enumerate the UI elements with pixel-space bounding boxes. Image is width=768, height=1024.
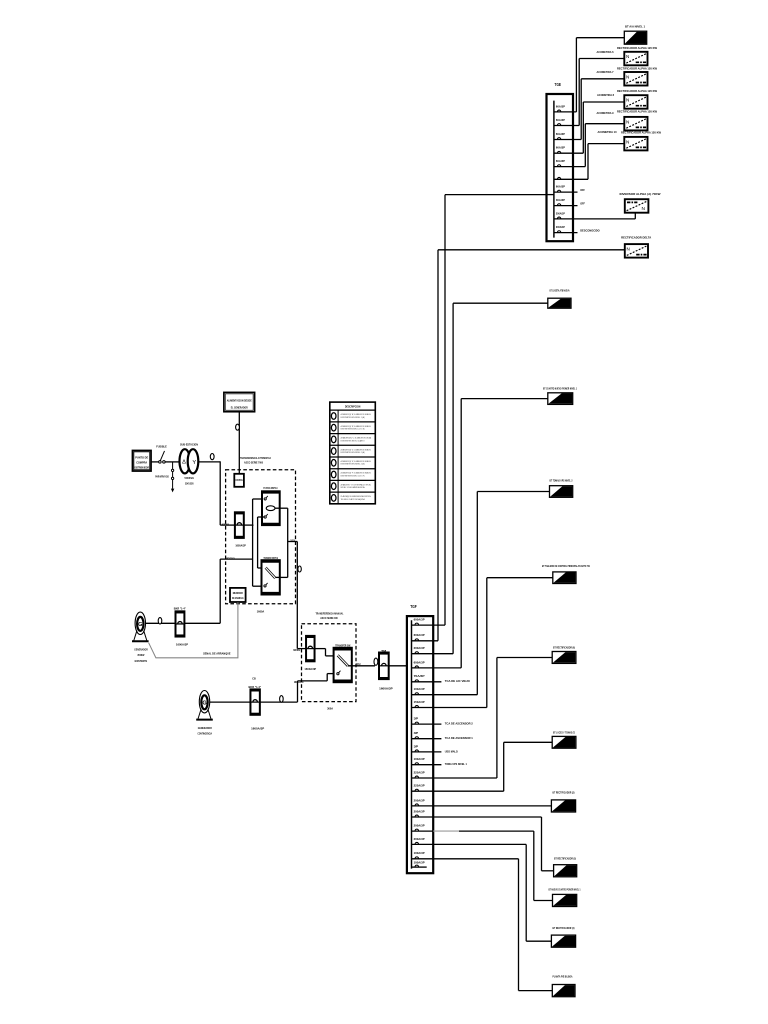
svg-text:100A/3P: 100A/3P bbox=[414, 861, 425, 865]
node on control wire bbox=[236, 424, 240, 430]
legend node 6 bbox=[331, 471, 336, 478]
svg-text:EXISTENTES EN NIVEL 1 (A): EXISTENTES EN NIVEL 1 (A) bbox=[341, 416, 365, 419]
wire manual emergency input bbox=[298, 680, 328, 682]
wire manual breaker to transfer switch bbox=[315, 648, 326, 650]
svg-text:PLANTA(S) DE EMERGENCIA EXISTE: PLANTA(S) DE EMERGENCIA EXISTEN- bbox=[341, 495, 372, 498]
load BT RECTIFICADOR (2) bbox=[551, 800, 575, 812]
svg-text:3P: 3P bbox=[414, 731, 419, 735]
svg-text:BT CASETA ATB NUEVA: BT CASETA ATB NUEVA bbox=[550, 288, 570, 292]
svg-text:60A/3P: 60A/3P bbox=[556, 159, 565, 163]
svg-text:RECTIFICADOR ALPHA 120 KW: RECTIFICADOR ALPHA 120 KW bbox=[617, 109, 658, 113]
svg-text:MEDIDOR: MEDIDOR bbox=[233, 591, 243, 595]
load BT TABLERO DE CONTROL PRINCIPAL/CUARTO 701 bbox=[553, 572, 576, 584]
svg-text:BY-PASS SWITCH: BY-PASS SWITCH bbox=[263, 487, 277, 490]
svg-text:GENERADOR: GENERADOR bbox=[198, 726, 212, 730]
svg-text:RECTIFICADOR ALPHA 120 KW: RECTIFICADOR ALPHA 120 KW bbox=[617, 89, 658, 93]
load PLANTA P/E BILBOA bbox=[552, 985, 575, 997]
rectifier ALPHA 4 (120KW) bbox=[624, 117, 647, 130]
energy meter box MEDIDOR bbox=[230, 588, 246, 602]
start-signal line SENAL DE ARRANQUE bbox=[149, 602, 238, 658]
svg-text:200A/3P: 200A/3P bbox=[556, 211, 565, 215]
svg-text:ACOMETIDA 10: ACOMETIDA 10 bbox=[598, 130, 618, 134]
wire fuse to transformer bbox=[165, 461, 179, 463]
svg-text:FUSIBLE: FUSIBLE bbox=[156, 445, 167, 449]
wire breaker to junction bbox=[244, 524, 253, 526]
svg-text:100A/3P: 100A/3P bbox=[414, 851, 425, 855]
svg-text:A TABLERO(S) “E”, A TABLEROS G: A TABLERO(S) “E”, A TABLEROS GRALES. bbox=[341, 460, 372, 463]
svg-text:SENAL DE ARRANQUE: SENAL DE ARRANQUE bbox=[203, 652, 231, 656]
load BT A/A NIVEL 1 bbox=[624, 31, 646, 44]
panel TGF enclosure bbox=[407, 616, 433, 873]
manual transfer lower pin bbox=[337, 673, 339, 675]
wire alimentacion to control bbox=[238, 412, 240, 474]
svg-text:200A/3P: 200A/3P bbox=[414, 809, 425, 813]
svg-text:A TABLERO “G” DE RESPALDO EN E: A TABLERO “G” DE RESPALDO EN EL bbox=[341, 483, 372, 486]
ATS output branch bbox=[288, 541, 298, 543]
svg-text:60A/3P: 60A/3P bbox=[556, 104, 565, 108]
svg-text:TOMA UPS NIVEL 1: TOMA UPS NIVEL 1 bbox=[445, 762, 467, 766]
main feed breaker 1600A/3P bbox=[379, 653, 389, 680]
svg-text:N: N bbox=[627, 247, 630, 252]
load BT LUCES Y TOMAS (7) bbox=[552, 736, 576, 748]
inverter ALPHA A 70KW bbox=[625, 199, 649, 213]
node on ATS output riser bbox=[298, 566, 301, 572]
svg-text:ACOMETIDA 7: ACOMETIDA 7 bbox=[597, 70, 614, 74]
utility source box (PUNTO DE COMPRA DISTRIBUIDOR) bbox=[133, 451, 152, 472]
by-pass lower pin bbox=[264, 516, 266, 518]
svg-text:CB: CB bbox=[252, 678, 256, 681]
breaker TGE-6 (unlabeled) bbox=[554, 178, 588, 180]
wire existing gen to ATS emergency bbox=[184, 622, 220, 624]
svg-text:BT CUARTO NUEVO POWER NIVEL 1: BT CUARTO NUEVO POWER NIVEL 1 bbox=[543, 386, 577, 390]
svg-text:CONTROL: CONTROL bbox=[235, 479, 243, 482]
rectifier ALPHA 3 (120KW) bbox=[624, 95, 647, 109]
legend node 2 bbox=[331, 424, 336, 431]
legend title DESCRIPCION bbox=[330, 402, 376, 504]
svg-text:TRANSFERENCIA AUTOMATICA: TRANSFERENCIA AUTOMATICA bbox=[240, 456, 271, 460]
svg-text:3P: 3P bbox=[414, 717, 419, 721]
svg-text:A TABLERO(S) “A”, A TABLEROS G: A TABLERO(S) “A”, A TABLEROS GRALES. bbox=[341, 413, 372, 416]
svg-text:200A/3P: 200A/3P bbox=[414, 837, 425, 841]
svg-text:N: N bbox=[626, 74, 629, 79]
wire coil to riser bbox=[275, 507, 288, 509]
svg-text:N: N bbox=[626, 98, 629, 103]
generator contingency breaker 1600A/3P bbox=[250, 689, 259, 714]
svg-text:G: G bbox=[138, 622, 142, 628]
legend node 8 bbox=[331, 495, 336, 502]
ATS transfer lower pin bbox=[264, 585, 266, 587]
svg-text:PARARRAYOS: PARARRAYOS bbox=[155, 475, 169, 479]
ATS normal breaker 1600A/3P bbox=[235, 512, 244, 538]
node before main breaker bbox=[374, 658, 378, 665]
svg-text:OFF: OFF bbox=[580, 188, 585, 192]
load BT NUEVO CUARTO POWER NIVEL 1 bbox=[553, 894, 577, 906]
svg-text:RECTIFICADOR ALPHA 120 KW: RECTIFICADOR ALPHA 120 KW bbox=[621, 131, 662, 135]
rectifier ALPHA 5 (120KW) bbox=[624, 137, 647, 151]
svg-text:ACOMETIDA 9: ACOMETIDA 9 bbox=[597, 111, 614, 115]
generator contingency (GENERADOR CONTINGENCIA) bbox=[199, 691, 209, 713]
svg-text:INVERSOR ALPHA (A) 70KW: INVERSOR ALPHA (A) 70KW bbox=[620, 192, 662, 196]
svg-text:3P: 3P bbox=[414, 744, 419, 748]
svg-text:TGE: TGE bbox=[555, 82, 562, 87]
ATS transfer output wire bbox=[275, 576, 287, 578]
svg-text:1600A/3P: 1600A/3P bbox=[304, 667, 316, 671]
svg-text:200A/3P: 200A/3P bbox=[414, 824, 425, 828]
svg-text:EXISTENTES EN NIVEL 2 (B): EXISTENTES EN NIVEL 2 (B) bbox=[341, 464, 365, 466]
svg-text:TCA DE A/C VIEJO: TCA DE A/C VIEJO bbox=[445, 679, 470, 683]
wire main feed to TGF bus bbox=[389, 665, 412, 667]
svg-text:600A/3P: 600A/3P bbox=[414, 633, 425, 637]
wire lower pin chain to transfer upper entry bbox=[258, 516, 264, 518]
svg-text:225A/3P: 225A/3P bbox=[414, 784, 425, 788]
legend node 4 bbox=[331, 448, 336, 455]
riser to rectifier DELTA bbox=[437, 250, 439, 641]
svg-text:600A/3P: 600A/3P bbox=[414, 618, 425, 622]
svg-text:A TABLERO(S) “C”, A TABLEROS D: A TABLERO(S) “C”, A TABLEROS DE A/A bbox=[341, 437, 372, 440]
svg-text:BT LUCES Y TOMAS (7): BT LUCES Y TOMAS (7) bbox=[553, 730, 575, 734]
svg-text:ACOMETIDA 8: ACOMETIDA 8 bbox=[597, 93, 614, 97]
wire junction down to transfer lower pin bbox=[252, 525, 254, 586]
svg-text:1600A/3P: 1600A/3P bbox=[235, 543, 246, 547]
svg-text:BT RECTIFICADOR (4): BT RECTIFICADOR (4) bbox=[553, 926, 575, 930]
svg-text:225A/3P: 225A/3P bbox=[414, 770, 425, 774]
svg-text:EXISTENTES EN NIVEL 3 (CTO. F): EXISTENTES EN NIVEL 3 (CTO. F) bbox=[341, 475, 365, 477]
svg-text:N: N bbox=[626, 119, 629, 124]
rectifier ALPHA 1 (120KW) bbox=[624, 52, 647, 66]
svg-text:CARGA: CARGA bbox=[356, 662, 361, 666]
rectifier ALPHA 2 (120KW) bbox=[624, 72, 647, 86]
label box ALIMENTACION DESDE EL GENERADOR bbox=[224, 392, 255, 411]
svg-text:ALIMENTACION DESDE: ALIMENTACION DESDE bbox=[227, 399, 252, 403]
panel TGF bus bbox=[411, 620, 413, 868]
svg-text:BT TABLERO DE CONTROL PRINCIPA: BT TABLERO DE CONTROL PRINCIPAL/CUARTO 7… bbox=[542, 564, 590, 568]
rectifier DELTA bbox=[625, 244, 648, 258]
panel TGE bus bbox=[553, 101, 555, 238]
svg-text:TES EN EL CUARTO DE MAQUINA: TES EN EL CUARTO DE MAQUINA bbox=[341, 498, 365, 501]
load BT RECTIFICADOR (6) bbox=[552, 652, 576, 664]
svg-text:200A/3P: 200A/3P bbox=[414, 646, 425, 650]
node on generator wire bbox=[158, 618, 162, 624]
svg-text:RECTIFICADOR ALPHA 120 KW: RECTIFICADOR ALPHA 120 KW bbox=[617, 46, 658, 50]
svg-text:RECTIFICADOR ALPHA 120 KW: RECTIFICADOR ALPHA 120 KW bbox=[617, 67, 658, 71]
svg-text:ACOMETIDA 6: ACOMETIDA 6 bbox=[597, 50, 614, 54]
svg-text:300A: 300A bbox=[327, 707, 334, 711]
svg-text:BT NUEVO CUARTO POWER NIVEL 1: BT NUEVO CUARTO POWER NIVEL 1 bbox=[549, 887, 581, 891]
wire generator contingency output bbox=[210, 701, 250, 703]
svg-text:500KVA: 500KVA bbox=[185, 476, 195, 480]
surge arrester PARARRAYOS bbox=[172, 462, 174, 469]
svg-text:1600A/3P: 1600A/3P bbox=[176, 642, 188, 646]
svg-text:PUNTO DE: PUNTO DE bbox=[135, 455, 148, 459]
load BT CUARTO NUEVO POWER NIVEL 1 bbox=[548, 393, 573, 405]
manual transfer blade bbox=[338, 655, 348, 666]
load BT TOMAS UPS NIVEL 2 bbox=[550, 486, 573, 498]
manual normal breaker 1600A/3P bbox=[306, 636, 315, 661]
svg-text:DISTRIBUIDOR: DISTRIBUIDOR bbox=[134, 467, 149, 470]
svg-text:EL GENERADOR: EL GENERADOR bbox=[231, 405, 249, 409]
svg-text:TRANSFERENCIA MANUAL: TRANSFERENCIA MANUAL bbox=[316, 611, 344, 615]
ATS dashed enclosure bbox=[226, 470, 296, 604]
svg-text:RECTIFICADOR DELTA: RECTIFICADOR DELTA bbox=[621, 236, 651, 240]
manual transfer dashed enclosure bbox=[302, 624, 357, 702]
svg-text:NIVEL 3 DE EMERGENCIA: NIVEL 3 DE EMERGENCIA bbox=[341, 486, 366, 489]
svg-text:1600A/3P: 1600A/3P bbox=[251, 727, 264, 731]
generator existing breaker 1600A/3P bbox=[176, 611, 185, 636]
svg-text:BT RECTIFICADOR (5): BT RECTIFICADOR (5) bbox=[554, 856, 576, 860]
load BT RECTIFICADOR (4) bbox=[551, 935, 575, 947]
svg-text:N: N bbox=[626, 139, 629, 144]
svg-text:BT TOMAS UPS NIVEL 2: BT TOMAS UPS NIVEL 2 bbox=[550, 478, 573, 482]
svg-text:USO MALO: USO MALO bbox=[445, 749, 458, 753]
load BT CASETA ATB NUEVA bbox=[548, 298, 571, 308]
svg-text:100A/3P: 100A/3P bbox=[414, 757, 425, 761]
wire transformer corner down to ATS normal bbox=[219, 461, 221, 525]
legend node 5 bbox=[331, 460, 336, 467]
svg-text:30A/3P: 30A/3P bbox=[556, 198, 565, 202]
legend node 1 bbox=[331, 413, 336, 420]
svg-text:BT A/A NIVEL 1: BT A/A NIVEL 1 bbox=[625, 25, 646, 29]
svg-text:BT RECTIFICADOR (2): BT RECTIFICADOR (2) bbox=[553, 790, 575, 794]
svg-text:Δ: Δ bbox=[182, 460, 186, 466]
svg-text:OFF: OFF bbox=[580, 202, 585, 206]
svg-text:ASCO SERIE 300: ASCO SERIE 300 bbox=[320, 616, 338, 620]
svg-text:1600A: 1600A bbox=[257, 610, 265, 614]
svg-text:TCA DE ASCENSOR 1: TCA DE ASCENSOR 1 bbox=[445, 736, 473, 740]
wire generator existing output bbox=[146, 622, 176, 624]
panel TGE main feed entry bbox=[547, 194, 554, 196]
svg-text:SUB-ESTACION: SUB-ESTACION bbox=[180, 443, 198, 447]
wire manual normal input bbox=[297, 648, 306, 650]
node on contingency wire bbox=[280, 696, 284, 703]
node on secondary wire bbox=[210, 454, 214, 460]
by-pass switch box bbox=[262, 491, 280, 525]
svg-text:60A/3P: 60A/3P bbox=[556, 118, 565, 122]
svg-text:350KW: 350KW bbox=[137, 653, 144, 657]
svg-text:COMPRA: COMPRA bbox=[136, 461, 147, 465]
svg-text:600A/3P: 600A/3P bbox=[414, 660, 425, 664]
svg-text:A TABLERO(S) “B”, A TABLEROS G: A TABLERO(S) “B”, A TABLEROS GRALES. bbox=[341, 425, 372, 428]
ATS transfer switch box bbox=[262, 560, 280, 594]
svg-text:N: N bbox=[641, 206, 645, 212]
svg-text:A TABLERO(S) “D”, A TABLEROS G: A TABLERO(S) “D”, A TABLEROS GRALES. bbox=[341, 448, 372, 451]
svg-text:BT RECTIFICADOR (6): BT RECTIFICADOR (6) bbox=[553, 646, 575, 650]
ATS transfer blade bbox=[266, 568, 276, 579]
panel TGE enclosure bbox=[547, 94, 574, 241]
by-pass upper pin bbox=[264, 498, 266, 500]
wire ATS emergency input bbox=[220, 558, 252, 560]
wire by-pass riser down bbox=[287, 508, 289, 577]
svg-text:BKR "1-4": BKR "1-4" bbox=[249, 685, 262, 689]
by-pass coil bbox=[266, 506, 275, 511]
svg-text:150A/3P: 150A/3P bbox=[414, 700, 425, 704]
load BT RECTIFICADOR (5) bbox=[554, 865, 577, 877]
svg-text:70A/3P: 70A/3P bbox=[414, 674, 425, 678]
junction dot ATS bbox=[252, 524, 254, 526]
svg-text:DE ENERGIA: DE ENERGIA bbox=[232, 596, 244, 600]
svg-text:200A/3P: 200A/3P bbox=[414, 798, 425, 802]
wire junction up to by-pass upper pin bbox=[252, 499, 254, 525]
legend node 3 bbox=[331, 436, 336, 443]
svg-text:100A/3P: 100A/3P bbox=[414, 687, 425, 691]
manual transfer output wire bbox=[348, 665, 375, 667]
svg-text:Y: Y bbox=[192, 460, 196, 466]
svg-text:N: N bbox=[626, 54, 629, 59]
svg-text:EXISTENTES EN EL CUARTO: EXISTENTES EN EL CUARTO bbox=[341, 439, 365, 442]
svg-text:TCA DE ASCENSOR 2: TCA DE ASCENSOR 2 bbox=[445, 722, 473, 726]
svg-text:60A/3P: 60A/3P bbox=[556, 146, 565, 150]
svg-text:DESCONOCIDO: DESCONOCIDO bbox=[580, 229, 600, 233]
svg-text:PLANTA P/E BILBOA: PLANTA P/E BILBOA bbox=[553, 975, 573, 979]
svg-text:1600A/3P: 1600A/3P bbox=[379, 686, 393, 690]
wire contingency gen to manual transfer emergency bbox=[260, 701, 298, 703]
legend node 7 bbox=[331, 483, 336, 490]
svg-text:GENERADOR: GENERADOR bbox=[134, 647, 148, 651]
svg-text:60A/3P: 60A/3P bbox=[556, 185, 565, 189]
legend column divider bbox=[337, 410, 339, 504]
svg-text:G: G bbox=[202, 701, 206, 707]
svg-text:23KV/220: 23KV/220 bbox=[185, 481, 194, 485]
svg-text:EXISTENTES EN NIVEL 1 (CTO. B): EXISTENTES EN NIVEL 1 (CTO. B) bbox=[341, 429, 365, 431]
svg-text:BKR "1-4": BKR "1-4" bbox=[174, 606, 187, 610]
ATS control box bbox=[234, 474, 244, 487]
svg-text:60A/3P: 60A/3P bbox=[556, 132, 565, 136]
svg-text:DESCRIPCION: DESCRIPCION bbox=[345, 405, 361, 409]
manual transfer switch box bbox=[334, 648, 352, 682]
riser to panel TGE feed bbox=[444, 195, 446, 625]
svg-text:CONTINGENCIA: CONTINGENCIA bbox=[198, 732, 213, 736]
svg-text:EXISTENTES EN NIVEL 2 (A): EXISTENTES EN NIVEL 2 (A) bbox=[341, 451, 365, 454]
fuse-disconnect FUSIBLE bbox=[159, 461, 162, 464]
generator existing (GENERADOR EXISTENTE) bbox=[135, 612, 145, 634]
wire utility to fuse bbox=[151, 461, 159, 463]
svg-text:TGF: TGF bbox=[410, 604, 417, 609]
svg-text:A TABLERO(S) “F”, A TABLEROS G: A TABLERO(S) “F”, A TABLEROS GRALES. bbox=[341, 472, 372, 475]
svg-text:EXISTENTE: EXISTENTE bbox=[135, 659, 148, 663]
svg-text:200A/3P: 200A/3P bbox=[556, 225, 565, 229]
svg-text:ASCO SERIE 7000: ASCO SERIE 7000 bbox=[244, 461, 263, 465]
legend row separators bbox=[330, 409, 376, 411]
